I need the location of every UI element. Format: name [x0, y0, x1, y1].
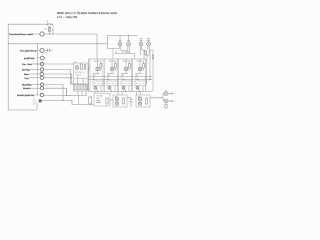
resistor R41 [89, 96, 92, 105]
node junction at supply [49, 33, 50, 34]
svg-text:4.72 — J May 1/69: 4.72 — J May 1/69 [57, 16, 78, 19]
keyer cell K4 box [135, 81, 146, 86]
resistor R5 [81, 64, 83, 70]
capacitor C12 [127, 98, 133, 108]
svg-text:Sustain pedal sw.: Sustain pedal sw. [17, 94, 34, 97]
resistor R12 [152, 55, 154, 59]
wire switch common bus [37, 44, 39, 95]
transistor Q14 [164, 92, 168, 96]
resistor RD2 [114, 62, 117, 71]
wire Q14 base [163, 94, 164, 98]
switch contact S7 [40, 83, 43, 86]
svg-text:MBSD 1001 (7, 8, 15) Mains Osc: MBSD 1001 (7, 8, 15) Mains Oscillator & … [57, 12, 117, 15]
wire bus row2 [8, 43, 107, 45]
resistor R45 [165, 103, 167, 108]
transistor Q1 [118, 36, 122, 46]
wire label to S6b [30, 77, 41, 79]
svg-text:Fast: Fast [25, 77, 30, 80]
oscillator block box [74, 63, 89, 91]
svg-text:ER 1203: ER 1203 [123, 61, 130, 63]
svg-text:a: a [46, 48, 47, 50]
transistor QK4 [136, 86, 140, 92]
keyer cell K1 box [93, 81, 104, 86]
node output terminal 1 [168, 93, 172, 94]
wire right column long [150, 51, 153, 92]
switch contact S3 [40, 56, 44, 60]
svg-text:1k: 1k [123, 75, 125, 77]
node junction FF [115, 35, 150, 80]
svg-text:FREQ: FREQ [88, 65, 90, 70]
wire drop to lower run [78, 96, 80, 105]
svg-text:Sustain: Sustain [23, 87, 31, 90]
wire vib feed [66, 88, 68, 95]
wire flipflop coupling 2 [128, 46, 153, 59]
svg-text:T1 0.05: T1 0.05 [75, 74, 81, 76]
wire bus to box stubs [95, 92, 141, 96]
svg-text:1k: 1k [137, 75, 139, 77]
resistor RD4 [142, 62, 145, 71]
wire Q14 supply stub [165, 89, 167, 92]
wire label to S1 [31, 33, 40, 35]
svg-text:ER 1201: ER 1201 [94, 61, 101, 63]
divider cell D1 [90, 59, 103, 92]
transistor Q10 [115, 98, 118, 101]
text cell value marks [94, 75, 138, 77]
wire flipflop coupling 1 [108, 46, 135, 59]
capacitor C11 [97, 101, 101, 103]
wire ground return loop [8, 24, 46, 110]
wire row S5 to block [44, 70, 71, 85]
transistor QK2 [108, 86, 112, 92]
connector P1 [33, 99, 42, 105]
capacitor C2 [44, 49, 53, 55]
resistor RD1 [99, 62, 102, 71]
svg-text:Div/Trig: Div/Trig [22, 69, 30, 72]
wire block internal [74, 76, 88, 85]
amp box A2 [136, 95, 150, 107]
svg-text:ER 1202: ER 1202 [109, 61, 116, 63]
divider cell D2 [105, 59, 118, 92]
svg-text:Power/notePhase switch: Power/notePhase switch [9, 33, 34, 36]
wire label to S9 [17, 94, 40, 96]
battery B1 +9V [44, 21, 53, 32]
wire bus A [89, 76, 153, 78]
resistor R42 [106, 98, 108, 104]
switch contact S6 [40, 72, 43, 75]
output filter box F1 [94, 93, 110, 106]
resistor RD3 [128, 62, 131, 71]
wire label to S6 [30, 73, 41, 75]
transistor QK3 [122, 86, 126, 92]
transistor QD4 [138, 59, 141, 74]
wire bottom left run [42, 101, 94, 105]
wire block drops [78, 91, 86, 96]
capacitor C5 [84, 65, 86, 70]
node keyer bus dots [97, 91, 140, 92]
wire battery to row1 bus [50, 24, 54, 34]
transistor Q3 [139, 39, 143, 46]
wire label to S3 [37, 57, 47, 59]
transistor Q15 [164, 99, 168, 103]
wire bus drop to grid [96, 34, 98, 59]
transistor QK1 [94, 86, 98, 92]
transistor Q13 [138, 102, 141, 105]
wire keyer cell drop K3 [128, 86, 130, 92]
svg-text:1k: 1k [52, 30, 54, 32]
resistor R101 [49, 27, 51, 31]
switch contact S5 [40, 68, 43, 71]
divider cell D3 [119, 59, 132, 92]
wire row S4 to block [44, 63, 75, 65]
node output terminal 2 [168, 100, 172, 101]
wire grid top rail [89, 58, 147, 60]
wire row S8 down [44, 88, 67, 95]
wire label to S8 [31, 87, 41, 89]
svg-text:1k: 1k [109, 75, 111, 77]
transistor Q2 [127, 36, 131, 46]
transistor QD2 [110, 59, 113, 74]
wire label to S4 [32, 63, 41, 65]
svg-text:Slow/Vibr.: Slow/Vibr. [22, 84, 32, 87]
keyer cell K2 box [107, 81, 118, 86]
wire bus drop right [107, 36, 109, 49]
wire box1 to box2 [110, 99, 113, 101]
wire keyer cell drop K2 [114, 86, 116, 92]
resistor R43 [123, 98, 125, 104]
wire bus B [89, 79, 153, 81]
wire grid left edge [88, 59, 90, 92]
transistor QD3 [124, 59, 127, 74]
wire keyer cell drop K4 [142, 86, 144, 92]
switch contact S6b [40, 76, 43, 79]
wire label to S5 [30, 69, 41, 71]
wire label to S2 [34, 50, 41, 52]
wire divider supply rail [108, 35, 138, 37]
wire output run [150, 98, 163, 101]
svg-text:1k: 1k [94, 75, 96, 77]
wire row S7 down [44, 85, 63, 101]
node junction dots lower left [62, 95, 72, 101]
resistor network RN1 [70, 84, 87, 90]
switch contact S8 [40, 87, 43, 90]
switch contact S2 [40, 49, 44, 53]
transistor Q11 [115, 102, 118, 105]
amp box A1 [113, 95, 127, 107]
wire row S6b to block [44, 77, 72, 79]
transistor Q5 [75, 66, 79, 70]
transistor Q4 [147, 39, 151, 46]
resistor R11 [145, 51, 147, 55]
wire row4 long [36, 63, 45, 65]
transistor QD1 [96, 59, 99, 74]
wire keyer cell drop K1 [100, 86, 102, 92]
switch contact S4 [40, 62, 43, 65]
svg-text:Osc. Gate: Osc. Gate [22, 63, 33, 66]
wire keyer bus [89, 91, 153, 93]
transistor Q12 [138, 98, 141, 101]
text block values [75, 72, 84, 76]
switch contact S1 [40, 32, 44, 36]
wire grid right edge [146, 59, 148, 84]
svg-text:(on)/Divide: (on)/Divide [24, 58, 35, 60]
svg-text:Freq (1/2) VHz p: Freq (1/2) VHz p [20, 50, 37, 53]
node bus dots [93, 79, 151, 80]
wire bus row1 [44, 33, 97, 35]
svg-text:ER 1204: ER 1204 [137, 61, 144, 63]
divider cell D4 [133, 59, 146, 92]
wire row S9 bus [44, 95, 87, 97]
wire cell drops [94, 74, 137, 80]
svg-text:NET 1: NET 1 [97, 98, 102, 100]
svg-text:Mute: Mute [24, 73, 30, 76]
switch contact S9 [40, 93, 43, 96]
wire label to S7 [31, 84, 40, 86]
keyer cell K3 box [121, 81, 132, 86]
wire row S6 to block [44, 74, 72, 84]
resistor R44 [146, 98, 148, 104]
